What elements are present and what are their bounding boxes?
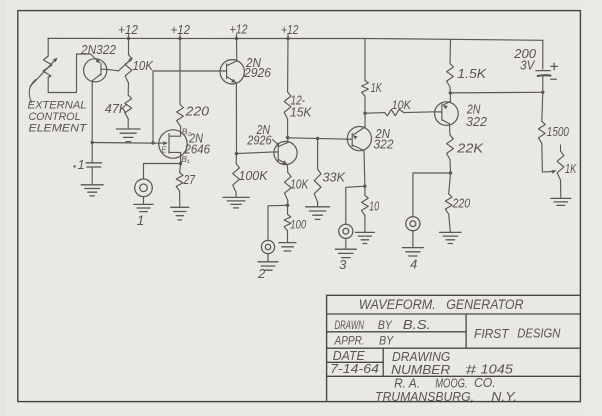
ground under jack 4: [402, 248, 423, 256]
svg-text:CONTROL: CONTROL: [29, 111, 81, 123]
company R. A. MOOG. CO.: [394, 375, 496, 391]
wire node to 10: [364, 186, 366, 195]
wire rail to battery: [542, 40, 544, 69]
capacitor .1: [73, 158, 101, 172]
svg-text:322: 322: [374, 138, 394, 152]
field APPR. BY: [334, 334, 394, 348]
label 2N322 (Q1): [80, 42, 117, 57]
wire 1500 to wiper: [542, 143, 557, 173]
field drawing number: [391, 361, 514, 376]
label 220 (output): [452, 196, 471, 210]
resistor 220 (output): [445, 194, 452, 214]
svg-text:BY: BY: [378, 318, 393, 332]
svg-text:ELEMENT: ELEMENT: [29, 122, 88, 134]
label 1500: [547, 125, 569, 139]
label 220: [185, 103, 210, 118]
resistor 10K (coupling): [385, 109, 405, 115]
wire jack 4 to ground: [412, 231, 414, 247]
leader curve to element: [29, 80, 35, 103]
wire node to jack 3: [346, 186, 365, 224]
svg-text:DRAWN: DRAWN: [335, 318, 365, 332]
svg-text:15K: 15K: [290, 104, 312, 119]
svg-text:WAVEFORM.: WAVEFORM.: [359, 297, 436, 312]
resistor 27: [176, 173, 183, 192]
wire 1K to emitter node: [364, 96, 366, 113]
resistor 100K: [233, 164, 240, 193]
svg-text:B.S.: B.S.: [403, 318, 431, 332]
label 2N2926 (Q4): [246, 123, 279, 147]
label 2N322 (Q5): [374, 127, 394, 152]
svg-text:1K: 1K: [565, 162, 577, 176]
svg-text:BY: BY: [379, 334, 394, 348]
wire 27 to ground: [179, 191, 181, 206]
ground under 47K: [116, 129, 140, 142]
label 27: [183, 172, 196, 187]
resistor 1K: [362, 81, 369, 97]
ground under 100K: [223, 197, 249, 208]
svg-text:+12: +12: [118, 23, 138, 37]
svg-text:47K: 47K: [105, 101, 129, 116]
transistor Q1 2N322: [84, 54, 119, 82]
transistor Q2 2N2926: [220, 60, 244, 84]
wire 100 to ground: [287, 231, 289, 242]
wire B1 to 27: [180, 164, 181, 173]
svg-text:1K: 1K: [371, 81, 382, 95]
node Q1 collector junction: [91, 141, 94, 144]
svg-text:2: 2: [257, 266, 266, 281]
svg-text:TRUMANSBURG,: TRUMANSBURG,: [375, 389, 474, 404]
label E: [161, 145, 167, 154]
node Q6 collector divider: [449, 171, 452, 174]
svg-text:GENERATOR: GENERATOR: [446, 297, 524, 312]
node Q2 emitter junction: [235, 152, 238, 155]
wire Q1 collector down: [91, 81, 93, 143]
resistor 1500: [538, 121, 545, 143]
label B2: [182, 126, 192, 136]
svg-text:MOOG.: MOOG.: [435, 375, 467, 390]
wire 100K to ground: [235, 192, 237, 197]
ground under 27: [171, 207, 189, 220]
field date value: [330, 361, 379, 376]
potentiometer 1K (output): [557, 145, 564, 180]
svg-text:1.5K: 1.5K: [457, 66, 486, 81]
node Q4 collector junction: [286, 136, 289, 139]
wire node to 100K: [235, 154, 237, 164]
wire 1.5K to emitter node: [449, 87, 451, 93]
wire junction to 33K: [317, 139, 319, 170]
label jack 1: [137, 213, 145, 228]
wire 12-15K to collector node: [287, 119, 289, 138]
wire Q6 emitter up: [449, 93, 451, 101]
field FIRST DESIGN: [474, 325, 561, 341]
ground under jack 1: [134, 204, 153, 211]
node +12 tap 1: [118, 23, 138, 40]
svg-text:10K: 10K: [133, 58, 155, 73]
node battery junction: [541, 91, 544, 94]
wire Q4 collector up: [287, 138, 289, 143]
svg-text:CO.: CO.: [474, 375, 496, 390]
svg-text:322: 322: [466, 115, 487, 129]
svg-text:3: 3: [339, 257, 347, 272]
wire node to 100: [287, 205, 289, 214]
svg-text:N.Y.: N.Y.: [491, 389, 517, 404]
node Q5 collector junction: [363, 185, 366, 188]
svg-text:2N322: 2N322: [80, 42, 117, 57]
svg-text:10K: 10K: [290, 176, 309, 191]
node 33K junction: [316, 137, 319, 140]
svg-text:4: 4: [410, 257, 417, 272]
wire rail to 12-15K: [287, 39, 289, 93]
potentiometer 10K: [119, 55, 133, 84]
company TRUMANSBURG N.Y.: [375, 389, 517, 404]
wire node to Q4 base: [237, 152, 275, 154]
svg-text:27: 27: [183, 172, 196, 187]
resistor 22K: [447, 135, 454, 159]
label 1.5K: [457, 66, 486, 81]
label 10K (coupling): [392, 98, 412, 112]
ground under 33K: [306, 207, 330, 220]
svg-text:1: 1: [137, 213, 145, 228]
label 12-15K: [290, 93, 312, 120]
wire Q5 collector down: [363, 150, 366, 186]
wire output line: [450, 91, 543, 94]
wire B1 to jack 1: [144, 164, 181, 179]
wire node to jack 4: [413, 173, 451, 217]
svg-text:EXTERNAL: EXTERNAL: [28, 99, 87, 111]
wire Q2 emitter down: [235, 83, 237, 154]
label B1: [181, 154, 190, 164]
node buffer tap junction: [151, 141, 154, 144]
node Q5 emitter junction: [363, 112, 366, 115]
resistor 10K (emitter): [284, 173, 291, 201]
wire rail to 1.5K: [449, 39, 452, 63]
title block frame: [327, 295, 581, 402]
transistor Q6 2N322: [435, 101, 459, 125]
svg-text:22K: 22K: [456, 141, 484, 156]
wire +12 supply rail: [48, 38, 543, 40]
svg-text:E: E: [161, 145, 167, 154]
svg-text:+12: +12: [171, 23, 191, 37]
wire 10 to ground: [364, 216, 366, 232]
wire jack 2 to ground: [267, 254, 269, 261]
jack 4: [406, 217, 420, 231]
battery 200 3V: [513, 46, 557, 79]
jack 1: [135, 179, 153, 197]
wire jack 1 to ground: [143, 197, 145, 203]
jack 2: [261, 240, 274, 253]
wire collector bus: [288, 138, 350, 139]
wire Q2 collector to rail: [236, 39, 238, 61]
label 2N322 (Q6): [466, 102, 487, 129]
svg-text:220: 220: [452, 196, 471, 210]
resistor 47K: [125, 95, 132, 119]
resistor 10: [362, 195, 369, 215]
svg-text:100K: 100K: [239, 168, 268, 183]
label 2N2926 (Q2): [243, 56, 271, 80]
svg-text:+12: +12: [230, 22, 248, 36]
svg-text:100: 100: [290, 218, 306, 232]
wire 33K to ground: [317, 202, 319, 206]
wire node to 220: [449, 173, 451, 194]
wire element to Q1 emitter: [48, 54, 90, 93]
svg-text:1: 1: [78, 158, 85, 172]
transistor Q4 2N2926: [274, 141, 297, 164]
jack 3: [339, 224, 353, 238]
svg-text:10: 10: [369, 200, 379, 214]
svg-text:FIRST: FIRST: [474, 326, 510, 341]
field DRAWN BY B.S.: [335, 318, 431, 332]
wire 10K to node: [287, 200, 289, 205]
wire jack 3 to ground: [345, 238, 347, 248]
svg-text:3V: 3V: [520, 58, 536, 73]
wire node to capacitor: [91, 143, 93, 163]
wire Q5 emitter up: [364, 113, 366, 127]
wire Q4 emitter to 10K: [286, 165, 289, 173]
node +12 tap 3: [230, 22, 248, 40]
resistor 33K: [314, 169, 321, 202]
svg-text:33K: 33K: [323, 170, 347, 185]
svg-text:1500: 1500: [547, 125, 569, 139]
svg-text:2646: 2646: [184, 143, 210, 157]
label 47K: [105, 101, 129, 116]
label 10K pot: [133, 58, 155, 73]
wire 22K to node: [449, 160, 452, 174]
svg-text:+12: +12: [281, 23, 299, 37]
field DATE: [333, 348, 365, 363]
label jack 4: [410, 257, 417, 272]
svg-text:7-14-64: 7-14-64: [330, 361, 379, 376]
wire node to jack 2: [268, 205, 288, 240]
title WAVEFORM GENERATOR: [359, 297, 524, 312]
wire 47K to ground: [127, 119, 129, 129]
transistor Q3 2N2646 (UJT): [159, 126, 187, 164]
svg-text:2926: 2926: [243, 66, 271, 80]
wire rail to pot 10K: [128, 38, 130, 54]
ground under 1K: [551, 198, 571, 205]
node divider junction: [286, 204, 289, 207]
wire 1K to ground: [560, 180, 562, 198]
label 33K: [323, 170, 347, 185]
wire timing node: [92, 142, 159, 145]
node Q6 emitter junction: [449, 91, 452, 94]
ground under 220: [440, 232, 462, 243]
node +12 tap 2: [171, 23, 191, 40]
label 100: [290, 218, 306, 232]
wire emitter node to 10K: [365, 112, 385, 115]
wire node to 1500: [542, 92, 543, 121]
label EXTERNAL CONTROL ELEMENT: [28, 99, 88, 134]
svg-text:10K: 10K: [392, 98, 412, 112]
svg-text:APPR.: APPR.: [334, 334, 365, 348]
label jack 3: [339, 257, 347, 272]
wire rail to element: [47, 38, 49, 56]
wire 10K to Q6 base: [404, 111, 435, 114]
wire Q6 collector down: [448, 124, 451, 135]
label jack 2: [257, 266, 266, 281]
label 1K (output): [565, 162, 577, 176]
transistor Q5 2N322: [347, 127, 371, 151]
wire rail to 220: [179, 38, 181, 104]
label 22K: [456, 141, 484, 156]
wire capacitor to ground: [91, 167, 93, 184]
svg-text:DESIGN: DESIGN: [517, 325, 561, 340]
node +12 tap 4: [281, 23, 299, 40]
resistor 100: [284, 214, 291, 230]
wire rail to 1K: [364, 39, 366, 81]
label 1K: [371, 81, 382, 95]
label 2N2646: [184, 132, 210, 157]
ground under 100: [279, 243, 296, 251]
svg-text:2926: 2926: [246, 133, 271, 147]
label 10: [369, 200, 379, 214]
label 100K: [239, 168, 268, 183]
ground under capacitor: [81, 185, 103, 196]
wire pot to 47K: [127, 83, 129, 95]
resistor 220: [177, 105, 184, 126]
svg-text:220: 220: [185, 103, 210, 118]
wire node to Q2 base: [153, 71, 220, 143]
ground under jack 2: [258, 262, 278, 270]
label 10K (emitter): [290, 176, 309, 191]
wire battery to node: [542, 76, 544, 92]
external control element (variable resistance): [30, 56, 58, 87]
svg-text:R. A.: R. A.: [394, 375, 420, 390]
wire 220 to ground: [449, 214, 451, 232]
resistor 1.5K: [447, 64, 454, 88]
ground under jack 3: [335, 249, 356, 257]
field DRAWING: [392, 349, 450, 364]
ground under 10: [355, 232, 374, 243]
resistor 12-15K: [284, 92, 291, 119]
node B1 junction: [179, 162, 182, 165]
